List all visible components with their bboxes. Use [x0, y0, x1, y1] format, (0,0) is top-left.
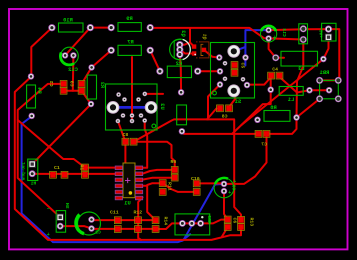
wire C8-left down inside U1 to row3 — [118, 142, 125, 180]
wire left outer rail to bottom rail and R13 — [15, 76, 241, 240]
resistor R12 pads — [135, 217, 142, 224]
wire R10-right to C12-left — [65, 28, 90, 56]
pad C3.1 — [221, 181, 227, 187]
pad S1 p2 — [217, 68, 223, 74]
svg-text:R2: R2 — [176, 61, 182, 67]
pad C3.2 — [221, 188, 227, 194]
capacitor C6 pads — [224, 216, 231, 223]
wire H1 round pad through C1 to SOIC row2 — [32, 173, 115, 175]
wire R8 right via elbow to C7-right — [267, 118, 297, 134]
resistor R5 outline — [177, 105, 187, 125]
module S1 outline — [211, 43, 255, 99]
module U3 outline — [106, 84, 158, 130]
header H1 outline — [28, 159, 38, 180]
capacitor C2 outline — [76, 212, 101, 235]
svg-text:H1: H1 — [31, 181, 37, 187]
via V6 — [272, 54, 279, 61]
pad R9.2 — [147, 24, 154, 31]
wire big diagonal via to y134 node — [232, 59, 323, 134]
wire Q1-right to S1 pad1 — [204, 50, 219, 58]
pad RB3.3 — [197, 220, 204, 227]
pad U3 p3 — [136, 97, 141, 102]
wire C12-right down to C2/C9 row — [72, 56, 75, 91]
pad U3 big1 — [107, 101, 120, 114]
pad S1 p5 — [223, 77, 228, 82]
wire SOIC row4R down to R14-top — [143, 186, 156, 220]
svg-text:+: + — [47, 232, 50, 238]
wire cap bottom row — [92, 228, 156, 230]
svg-text:R11: R11 — [167, 182, 173, 191]
pad U3 p10 — [142, 118, 147, 123]
wire net down right to R13-top — [207, 119, 241, 219]
via V4 — [88, 101, 94, 107]
pad U3 p5 — [116, 119, 121, 124]
pad RB1.2 — [335, 77, 342, 84]
svg-text:L3: L3 — [298, 66, 304, 72]
pad R9.1 — [108, 24, 115, 31]
svg-text:C6: C6 — [232, 218, 238, 224]
capacitor C11 pads — [114, 217, 121, 224]
svg-text:SH: SH — [64, 203, 70, 209]
wire C8-right to R6 pads — [134, 142, 175, 170]
svg-text:R12: R12 — [134, 210, 143, 216]
wire SOIC row3R to C-bottom — [143, 178, 175, 180]
wire R11-bottom to C10-bottom — [163, 183, 197, 192]
wire C7-right down to C3-top — [224, 134, 267, 184]
pad U3 p7 — [130, 113, 135, 118]
inductor L3 outline — [281, 51, 318, 66]
svg-text:R4: R4 — [36, 87, 42, 94]
pad RB1.3 — [316, 95, 323, 102]
pad S1 p4 — [223, 61, 228, 66]
op-amp U1 pads — [115, 166, 143, 200]
svg-text:R6: R6 — [171, 159, 177, 165]
svg-text:C8: C8 — [222, 114, 228, 120]
pad U3 p6 — [121, 113, 126, 118]
pad C13.1 — [265, 27, 271, 33]
wire C4-right to RB1 via — [280, 77, 310, 93]
via V7 — [320, 56, 326, 62]
pad C12.2 — [70, 52, 76, 58]
wire via to C9-top — [82, 67, 92, 84]
wire branch to R11-top — [147, 183, 163, 185]
pad S1 p1 — [216, 54, 222, 60]
mark S1 corner circle — [213, 91, 217, 95]
wire blue spur to S1 big pad — [234, 47, 246, 51]
svg-text:L1: L1 — [288, 97, 294, 103]
pad C12.1 — [62, 52, 68, 58]
svg-text:C12: C12 — [68, 67, 78, 73]
capacitor C1 pads — [50, 171, 57, 178]
wire y134 long horizontal via to C7-left — [182, 132, 259, 134]
wire diagonal up to C4 via — [241, 76, 270, 125]
wire R2-right to S1 pad2 — [198, 70, 220, 72]
wire R7-left to via — [92, 50, 112, 67]
svg-text:−: − — [47, 206, 50, 212]
svg-text:R8: R8 — [270, 105, 276, 111]
pad R2.2 — [194, 68, 201, 75]
pad R7.2 — [147, 47, 154, 54]
wire Q1 left-bottom to Q3 middle — [180, 50, 194, 54]
resistor R9 outline — [118, 23, 141, 32]
wire Q3 pin1 to junction — [180, 43, 190, 45]
resistor R1smd pads — [82, 164, 89, 171]
wire SO-right to S1 bottom pad — [229, 93, 236, 107]
mark U3 corner circle — [152, 124, 156, 128]
svg-text:C3: C3 — [231, 185, 237, 191]
resistor R7 outline — [118, 45, 141, 55]
pad S1 p8 — [244, 82, 250, 88]
wire SH round pad to C2cap — [60, 226, 91, 228]
svg-text:Aud-out: Aud-out — [20, 161, 25, 180]
svg-text:R14: R14 — [163, 217, 169, 226]
svg-text:R3: R3 — [99, 82, 105, 88]
resistor R13 pads — [238, 216, 245, 223]
via V2 — [88, 64, 94, 70]
wire blue stub into bottom connector — [182, 234, 190, 241]
pad S1 p7 — [241, 77, 246, 82]
svg-text:+: + — [62, 60, 65, 66]
pad RB3.2 — [188, 220, 195, 227]
via V1 — [28, 73, 34, 79]
wire blue C3-top pad to left rail — [22, 116, 224, 242]
svg-text:C9: C9 — [69, 81, 75, 87]
resistor R3 outline — [87, 75, 96, 99]
resistor R10 outline — [59, 23, 84, 32]
wire C13-bottom to via — [269, 38, 284, 57]
wire C13-bottom to 2-pin conn — [269, 38, 304, 39]
pad U3 p2 — [122, 97, 127, 102]
pad Q3.3 — [176, 51, 183, 58]
wire Q3 pin3 down to R5 pad — [180, 55, 181, 93]
pad C2.1 — [88, 216, 94, 222]
pad C2.2 — [88, 225, 94, 231]
pad R7.1 — [108, 47, 115, 54]
wire C3-bottom down to C6 — [224, 191, 228, 219]
svg-text:C2: C2 — [49, 81, 55, 87]
capacitor C8 pads — [122, 138, 129, 145]
svg-text:RB1: RB1 — [320, 70, 330, 76]
pad RB1.1 — [316, 77, 323, 84]
resistor R6smd pads — [171, 167, 178, 174]
svg-text:S1: S1 — [235, 99, 241, 105]
wire C13-top to VC+ and down right side — [269, 29, 340, 80]
pad R2.1 — [156, 68, 163, 75]
pad R8.1 — [254, 117, 260, 123]
capacitor C10 pads — [193, 180, 200, 187]
svg-text:C5: C5 — [240, 63, 246, 69]
capacitor C9smd pads — [78, 81, 85, 88]
wire R10-right to R9-left — [90, 27, 111, 29]
svg-text:Q3: Q3 — [180, 30, 186, 36]
wire Q1 left-top up to top net — [190, 29, 194, 47]
svg-text:C10: C10 — [191, 176, 200, 182]
wire C10-top to C3-top — [197, 182, 224, 184]
pad S1 big2 — [227, 84, 240, 97]
via V8 — [306, 87, 312, 93]
wire C2-top long diagonal to left rail and SH pad — [18, 84, 64, 217]
pad T1.2 — [300, 36, 307, 43]
pad R8.2 — [293, 114, 299, 120]
pad R10.1 — [48, 24, 55, 31]
wire R1-top to SOIC pin row1 — [85, 167, 116, 169]
svg-text:R13: R13 — [249, 218, 255, 227]
svg-text:+: + — [233, 179, 236, 185]
pad S1 p3 — [217, 81, 223, 87]
wire y119 long horizontal C8-right to SO-left — [134, 108, 217, 141]
svg-text:Q1: Q1 — [202, 34, 208, 40]
pad U3 p9 — [139, 113, 144, 118]
via V5 — [268, 87, 274, 93]
op-amp U1 body — [123, 163, 135, 198]
resistor R2 outline — [167, 66, 191, 78]
resistor R14 pads — [152, 217, 159, 224]
pad U3 p1 — [116, 92, 121, 97]
capacitor C2smd pads — [60, 81, 67, 88]
wire S1 pad3 elbow — [208, 85, 220, 120]
wire R10-left to via chain — [31, 28, 52, 77]
transistor Q1 bracket — [201, 44, 203, 55]
svg-text:C1: C1 — [54, 165, 60, 171]
svg-text:R7: R7 — [127, 40, 133, 46]
wire R14-bottom to RB3 left pad — [156, 223, 201, 229]
wire RB1-BL to R8 right via — [297, 99, 320, 118]
svg-text:C7: C7 — [261, 142, 267, 148]
wire SOIC row6R down through R12 to bottom rail — [138, 197, 142, 240]
pad RB1.W — [326, 87, 332, 93]
pad VC.2 — [325, 34, 332, 41]
pad VC.1 — [325, 26, 332, 33]
connector VC outline — [322, 23, 336, 41]
capacitor C13 outline — [261, 26, 277, 42]
wire blue net C13-top to S1 top pad — [245, 30, 268, 65]
wire U1 row1R up to U3 pad — [143, 121, 148, 168]
wire R7-right to R2-left — [150, 50, 160, 71]
pad RB3.1 — [179, 220, 186, 227]
wire C2-bottom to C9-bottom — [64, 90, 82, 92]
wire C9-bottom to via — [82, 91, 91, 104]
wire C6-bottom to rail — [222, 227, 228, 237]
svg-text:+: + — [228, 190, 231, 196]
wire U3 right small pad stub — [145, 93, 163, 95]
header SH outline — [56, 211, 65, 233]
pad SH.2 — [57, 223, 64, 230]
wire SOIC row2R to C-top — [143, 170, 175, 174]
capacitor C4 pads — [268, 72, 275, 79]
wire VC+ square pad to via — [323, 37, 328, 59]
capacitor C7 pads — [255, 131, 262, 138]
svg-text:C8: C8 — [123, 132, 129, 138]
svg-text:C11: C11 — [110, 210, 119, 216]
inductor L1 outline — [279, 87, 303, 96]
wire via to RB1 wiper — [310, 89, 330, 91]
svg-text:C4: C4 — [272, 66, 278, 72]
wire RB1 top pads — [320, 79, 339, 81]
capacitor C5 pads — [231, 62, 238, 69]
wire cap top row through C11 R12 to R14 — [92, 219, 156, 221]
svg-text:R10: R10 — [63, 18, 73, 24]
pad T1.1 — [300, 25, 307, 32]
pad S1 big1 — [227, 45, 240, 58]
transistor Q3 outline — [170, 39, 191, 60]
pad S1 p6 — [242, 54, 248, 60]
pad Q3.1 — [176, 41, 183, 48]
wire U3 center vertical — [131, 57, 133, 121]
pad U3 p8 — [130, 119, 135, 124]
capacitor C8b pads — [217, 105, 224, 112]
svg-text:U3: U3 — [159, 103, 165, 109]
pad H1.1 — [29, 161, 36, 168]
mark RB3 dot — [201, 216, 203, 218]
connector RB3 outline — [175, 214, 210, 235]
via V3 — [29, 113, 35, 119]
svg-text:U1: U1 — [124, 201, 130, 207]
resistor R8 outline — [264, 111, 290, 122]
resistor R4 outline — [27, 85, 36, 108]
pad R5.1 — [178, 89, 184, 95]
resistor R11 pads — [159, 180, 166, 187]
wire C4-left to S1 right pad — [247, 77, 271, 85]
connector T1 outline — [299, 24, 308, 44]
svg-text:RB3: RB3 — [206, 215, 212, 224]
transistor Q1 outline — [196, 42, 209, 58]
svg-text:R9: R9 — [126, 16, 132, 22]
svg-text:R1: R1 — [79, 165, 85, 171]
pad SH.1 — [57, 214, 64, 221]
pad Q3.2 — [176, 46, 183, 53]
pad H1.2 — [29, 170, 36, 177]
wire via diagonal to H1 square pad — [32, 104, 91, 164]
capacitor C12 outline — [60, 47, 78, 65]
pad U3 p4 — [143, 92, 148, 97]
pad U3 big2 — [145, 101, 158, 114]
svg-text:+: + — [273, 35, 276, 41]
svg-text:C2: C2 — [95, 230, 101, 236]
pad R10.2 — [87, 24, 94, 31]
trimmer RB1 outline — [320, 80, 339, 98]
wire conn pad down across L3 — [297, 40, 304, 118]
transistor Q1 pads — [192, 44, 196, 48]
wire RB3 right pad to C6-top — [201, 220, 228, 224]
wire top main net from R9-right to C13-bottom — [150, 28, 268, 38]
wire long diagonal to R1 pads — [18, 120, 85, 168]
capacitor C3 outline — [214, 178, 234, 198]
svg-text:+VC−: +VC− — [318, 27, 324, 38]
svg-text:C13: C13 — [281, 28, 287, 37]
pad C13.2 — [265, 35, 271, 41]
wire blue jumper under U3 — [113, 106, 151, 109]
pad R5.2 — [179, 128, 185, 134]
wire U3 pad to C8-left — [118, 121, 126, 142]
pad RB1.4 — [335, 95, 342, 102]
